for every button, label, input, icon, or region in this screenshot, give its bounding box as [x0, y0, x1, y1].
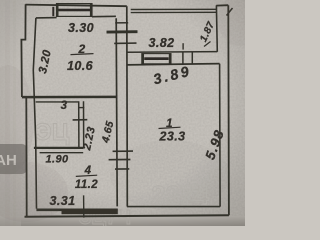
svg-text:3.30: 3.30 — [68, 21, 94, 35]
wall A: vertical wall between left rooms and room 1 (left line) — [116, 18, 117, 206]
room 4 bottom wall dark fill band — [62, 209, 118, 215]
rung tick on wall A-B at y151 — [113, 150, 133, 152]
tick crossing bottom wall at x83.5 — [83, 195, 85, 217]
window W1 between balcony and room 1 — [142, 54, 171, 64]
vignette — [0, 0, 245, 226]
balcony railing double line — [131, 8, 217, 10]
svg-text:10.6: 10.6 — [67, 59, 94, 73]
rung tick on wall A-B at y159.6 — [109, 159, 131, 161]
room 3 right wall rung at y107.6 — [78, 107, 84, 109]
rung tick on wall A-B at y43 — [114, 42, 136, 44]
room label 1 underline — [159, 127, 181, 128]
tick small diagonal near 1.87 end — [204, 42, 211, 47]
room 1 right wall inner line — [219, 64, 222, 207]
inner top wall line (right of window) — [92, 15, 116, 17]
window W2 in top wall of room 2 — [57, 4, 93, 17]
room 2 bottom wall second line — [36, 101, 79, 103]
room 4 bottom wall inner thick line — [36, 209, 117, 212]
left margin streak — [0, 0, 21, 226]
outer wall: top-right cap of balcony side wall — [216, 4, 228, 6]
tick: diagonal mark at top-right corner — [227, 8, 233, 16]
tick above balcony door — [182, 43, 184, 49]
outer wall: left edge with step — [21, 4, 25, 97]
tick on room 3 right wall at y119.8 — [73, 119, 88, 121]
inner top wall line (left of window) — [36, 17, 57, 19]
outer wall: top edge — [26, 5, 127, 7]
watermark logo block (AN) at left edge — [0, 144, 27, 174]
room label 4 underline — [76, 175, 97, 176]
room 2 bottom wall thick line — [22, 96, 116, 99]
wall B: room 1 left wall (right line) — [126, 6, 129, 206]
balcony floor line — [127, 51, 217, 54]
outer wall: left lower edge — [25, 97, 27, 217]
room 3 bottom wall second line — [40, 152, 84, 154]
inner left wall line — [33, 18, 36, 209]
paper background — [0, 0, 245, 226]
outer wall: bottom edge — [25, 215, 229, 217]
left margin fold streaks — [5, 0, 10, 226]
rung tick on wall A-B at y169 — [115, 168, 129, 170]
room label 2 underline — [71, 54, 94, 55]
svg-text:1.90: 1.90 — [45, 154, 68, 166]
balcony side wall inner line — [215, 5, 218, 51]
bottom darker scan band — [0, 216, 245, 226]
outer wall: right edge — [227, 5, 230, 215]
balcony door jamb left — [182, 52, 184, 64]
rung tick on wall A-B at y23 — [115, 22, 128, 24]
window sill bar left of W2 — [52, 7, 54, 16]
room 3 bottom wall thick line — [34, 147, 84, 149]
room 1 top wall line — [127, 64, 220, 65]
room 3 right wall double lines — [78, 101, 80, 148]
room 1 bottom wall inner line — [127, 206, 220, 208]
balcony door jamb right — [191, 52, 193, 64]
svg-text:ЭЦ: ЭЦ — [35, 119, 70, 146]
svg-text:3.82: 3.82 — [149, 36, 175, 50]
svg-text:11.2: 11.2 — [75, 179, 98, 191]
svg-text:3: 3 — [61, 100, 68, 112]
scan shadow blotches — [0, 0, 262, 222]
paper noise texture — [0, 0, 245, 226]
rung tick thick on wall A-B at y32 — [107, 30, 138, 33]
